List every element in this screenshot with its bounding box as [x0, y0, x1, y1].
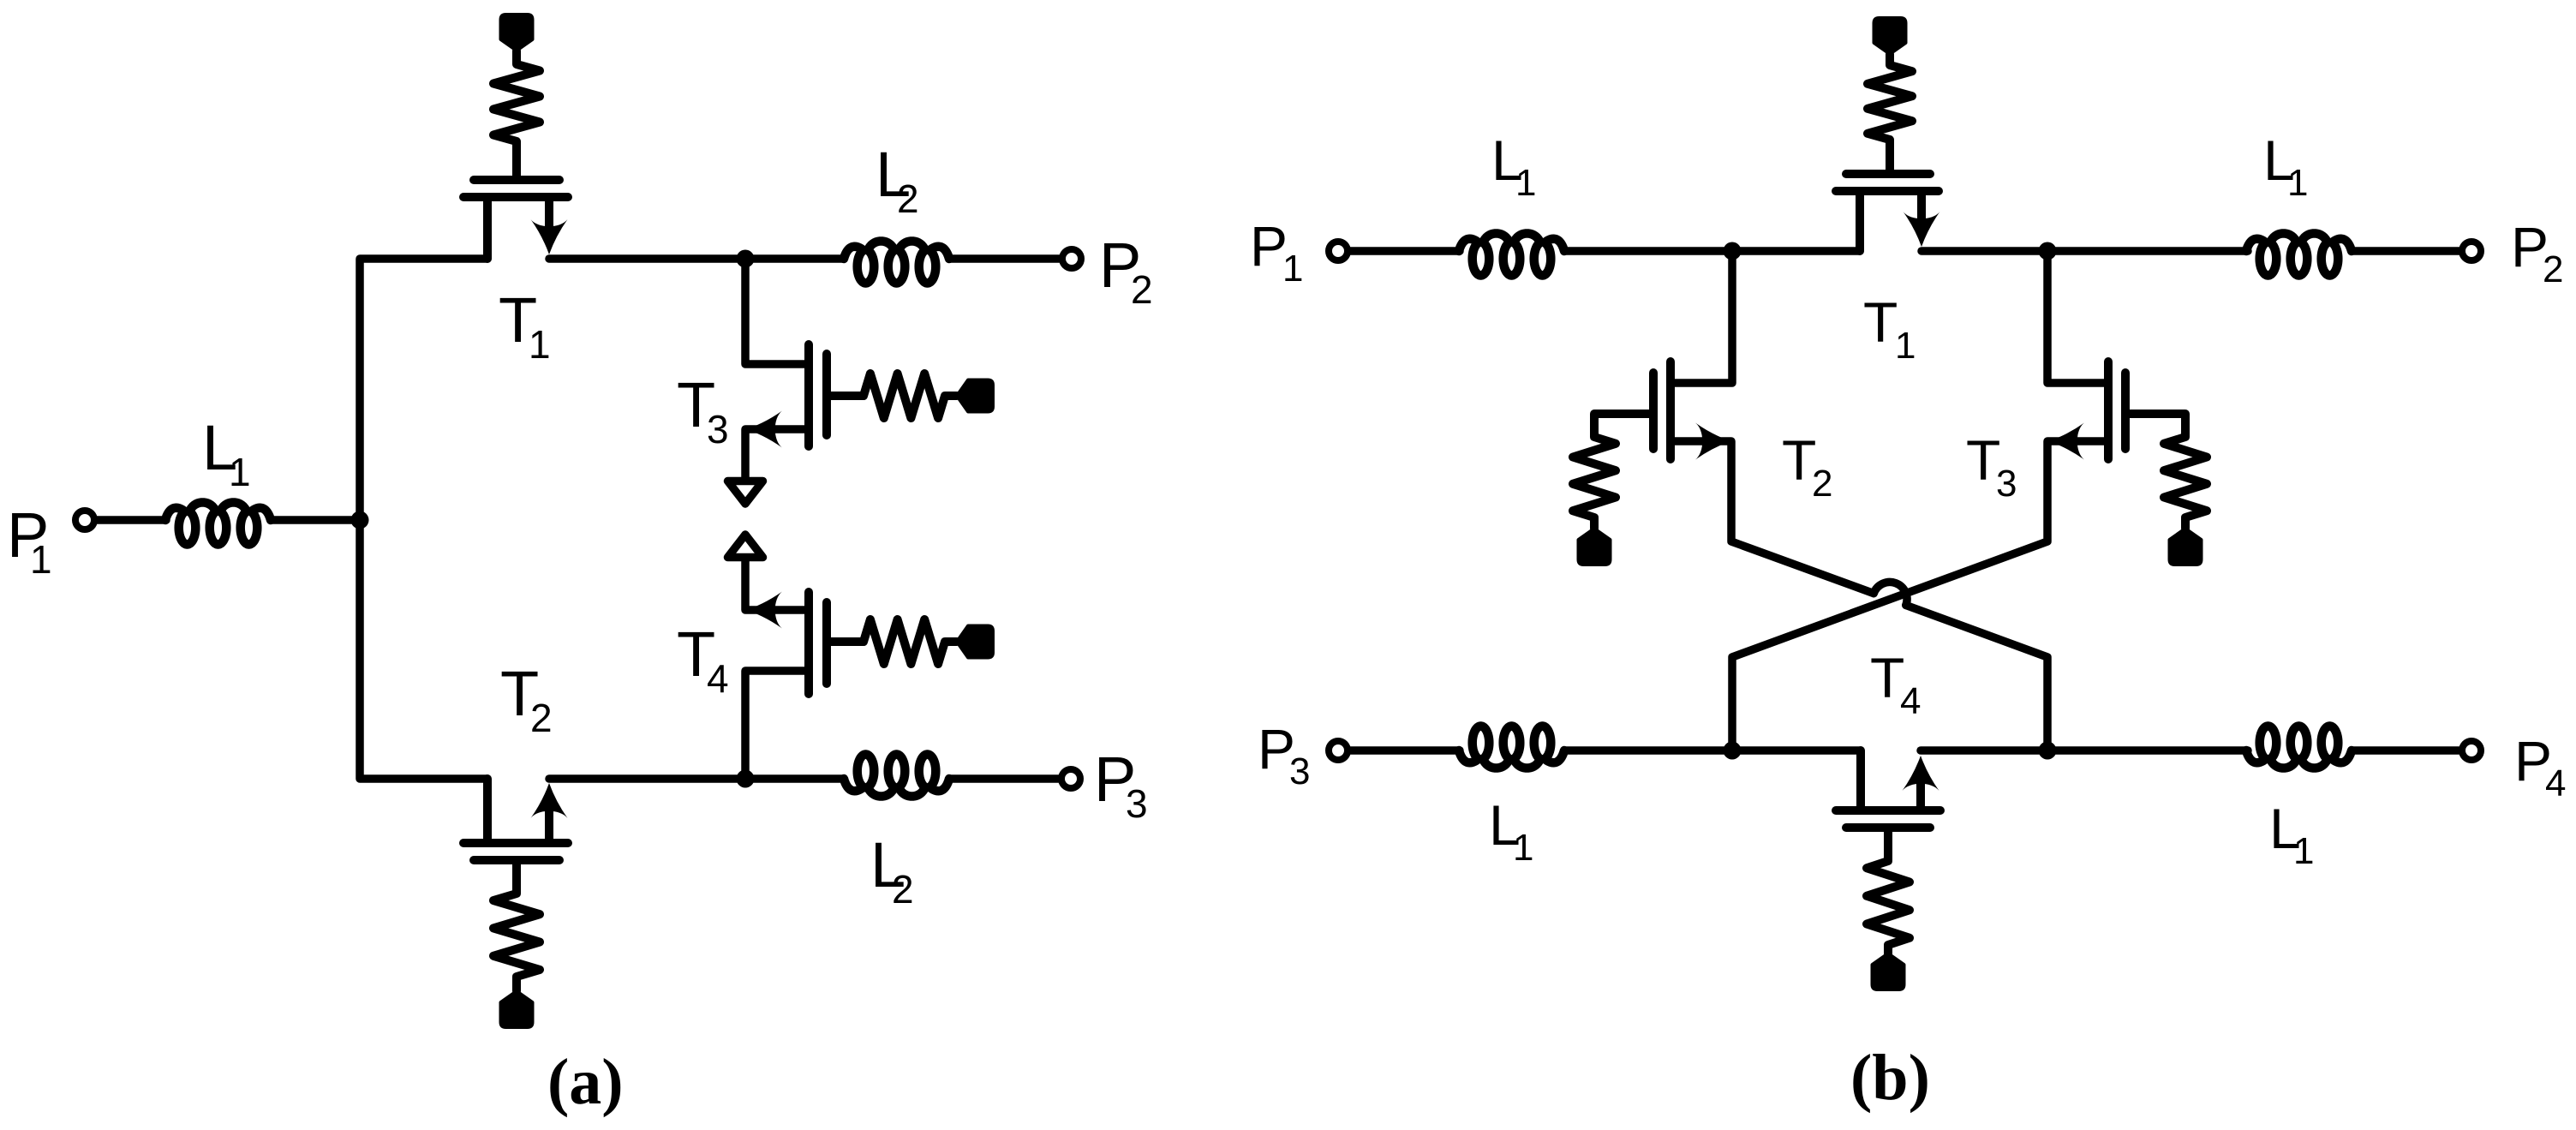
- node input junction: [351, 511, 369, 529]
- svg-text:1: 1: [529, 322, 551, 367]
- wire T4 drain to node F: [1921, 746, 2248, 755]
- svg-text:2: 2: [892, 867, 914, 912]
- ground arrow down: [728, 481, 763, 505]
- supply T2 bias (b): [1579, 529, 1611, 565]
- svg-text:1: 1: [1282, 248, 1303, 290]
- transistor T3 (b): [2104, 362, 2113, 459]
- wire L1 to input node: [271, 516, 360, 524]
- svg-text:1: 1: [1515, 162, 1536, 204]
- resistor R4 (T4 gate): [827, 619, 957, 664]
- wire P1 to L1: [95, 516, 166, 524]
- svg-text:4: 4: [1900, 680, 1921, 722]
- inductor L1 top-right: [2246, 233, 2352, 275]
- inductor L1 bottom-left: [1459, 726, 1564, 768]
- wire node C to T2 drain: [1671, 251, 1732, 383]
- svg-text:3: 3: [1126, 781, 1148, 826]
- node B junction: [737, 770, 755, 788]
- supply VDD T1 (b): [1874, 18, 1906, 54]
- wire cross to node F: [1906, 605, 2047, 750]
- svg-text:4: 4: [2545, 762, 2566, 804]
- crossover hop: [1874, 582, 1907, 605]
- node D junction: [2039, 242, 2057, 260]
- transistor T2: [463, 839, 568, 847]
- node A junction: [737, 250, 755, 268]
- transistor T1: [463, 193, 568, 201]
- svg-text:1: 1: [229, 450, 251, 494]
- wire input rail: [360, 259, 487, 779]
- port P2: [1062, 249, 1081, 268]
- svg-text:1: 1: [1895, 325, 1916, 367]
- supply T3 bias (b): [2170, 529, 2202, 565]
- port P1: [75, 511, 94, 529]
- port P3: [1061, 769, 1080, 788]
- resistor R1 (T1 bias): [493, 51, 540, 176]
- wire L2 to P2: [949, 254, 1061, 263]
- resistor R3 (T3 gate) (b): [2125, 414, 2207, 529]
- node C junction: [1724, 242, 1742, 260]
- svg-text:2: 2: [2543, 248, 2563, 290]
- transistor T3: [804, 344, 813, 446]
- inductor L1 top-left: [1459, 233, 1564, 275]
- svg-text:2: 2: [1131, 267, 1153, 312]
- svg-text:3: 3: [707, 407, 729, 451]
- supply VDD T1: [501, 15, 533, 51]
- wire T2 source to cross: [1671, 441, 1874, 594]
- wire L1 to T1 source: [1564, 247, 1860, 255]
- wire T2 drain to node B: [549, 774, 844, 783]
- resistor R2 (T2 bias): [493, 860, 540, 991]
- svg-text:T: T: [1863, 290, 1898, 354]
- wire L1 to P4: [2352, 746, 2461, 755]
- transistor T1 (b): [1836, 187, 1939, 195]
- inductor L2 top: [844, 241, 949, 283]
- wire node D to T3 drain: [2047, 251, 2108, 383]
- svg-text:3: 3: [1289, 750, 1310, 792]
- svg-text:1: 1: [30, 537, 52, 582]
- wire node A to T3 drain: [745, 259, 809, 364]
- transistor T2 (b): [1666, 362, 1675, 459]
- wire T1 drain to node D: [1922, 247, 2248, 255]
- svg-text:4: 4: [707, 656, 729, 701]
- wire L1 to P2 (b): [2352, 247, 2461, 255]
- wire T4 drain to node B: [745, 671, 809, 779]
- svg-text:2: 2: [530, 696, 553, 740]
- wire T1 drain to node A: [549, 254, 844, 263]
- svg-text:1: 1: [1513, 827, 1533, 869]
- wire L1 to node E: [1564, 746, 1861, 755]
- wire P1 to L1 (b): [1348, 247, 1460, 255]
- svg-text:2: 2: [1812, 463, 1832, 505]
- resistor R1 (T1 bias) (b): [1868, 54, 1912, 170]
- port P4: [2462, 741, 2481, 760]
- svg-text:1: 1: [2287, 162, 2308, 204]
- supply T3 bias: [957, 380, 993, 412]
- wire T3 source to node E: [1732, 441, 2108, 750]
- inductor L1 bottom-right: [2246, 726, 2352, 768]
- inductor L2 bottom: [844, 755, 949, 797]
- resistor R2 (T2 gate) (b): [1573, 414, 1653, 529]
- supply VSS T2: [501, 991, 533, 1027]
- transistor T4: [804, 592, 813, 694]
- svg-text:2: 2: [897, 176, 919, 221]
- svg-text:3: 3: [1996, 463, 2017, 505]
- wire to T4 source: [745, 560, 809, 610]
- ground arrow up: [728, 535, 763, 558]
- svg-text:(a): (a): [547, 1046, 624, 1118]
- wire T3 source: [745, 429, 809, 478]
- node F junction: [2039, 742, 2057, 760]
- inductor L1: [165, 502, 271, 544]
- node E junction: [1724, 742, 1742, 760]
- svg-text:(b): (b): [1850, 1042, 1930, 1114]
- transistor T4 (b): [1836, 806, 1940, 815]
- wire P3 to L1 (b): [1348, 746, 1460, 755]
- resistor R3 (T3 gate): [827, 374, 957, 418]
- port P1 (b): [1329, 242, 1348, 260]
- supply T4 bias: [957, 626, 993, 658]
- resistor R4 (T4 bias) (b): [1867, 828, 1910, 954]
- port P2 (b): [2462, 242, 2481, 260]
- port P3 (b): [1329, 741, 1348, 760]
- svg-text:1: 1: [2293, 830, 2314, 872]
- supply VSS T4 (b): [1873, 954, 1904, 989]
- wire L2 to P3: [949, 774, 1061, 783]
